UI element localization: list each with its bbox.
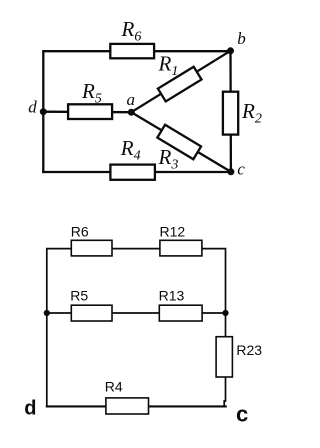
svg-text:R13: R13: [159, 288, 185, 304]
resistor R5 (top circuit): [68, 104, 112, 119]
svg-text:c: c: [237, 159, 245, 178]
wire top d-corner to b: [43, 51, 230, 172]
resistor R13: [159, 305, 202, 321]
svg-text:R2: R2: [241, 99, 262, 127]
svg-text:R6: R6: [121, 17, 142, 45]
resistor R4 (bottom circuit): [106, 398, 149, 414]
resistor R5 (bottom circuit): [71, 305, 112, 321]
resistor R3 (diagonal a-c): [157, 125, 201, 159]
wire bottom d-corner to c: [43, 171, 231, 173]
wire top rail of bottom circuit: [47, 249, 226, 313]
resistor R2 (right side): [223, 92, 238, 135]
wire a to c diagonal: [131, 112, 231, 172]
svg-text:b: b: [237, 29, 246, 48]
wire right rail node to R23: [225, 313, 227, 337]
svg-text:R23: R23: [236, 342, 262, 358]
node d junction dot: [40, 108, 47, 115]
svg-text:R6: R6: [71, 224, 89, 240]
wire a to b diagonal: [131, 51, 230, 112]
svg-text:d: d: [28, 97, 37, 116]
svg-text:R4: R4: [105, 379, 123, 395]
svg-text:a: a: [127, 90, 136, 109]
svg-text:d: d: [24, 398, 36, 420]
resistor R1 (diagonal a-b): [158, 67, 202, 102]
node a junction dot: [128, 109, 135, 116]
junction dot left (node d rail): [44, 310, 50, 316]
svg-text:R5: R5: [81, 79, 102, 107]
svg-text:R1: R1: [158, 52, 179, 80]
resistor R4 (bottom of top circuit): [110, 165, 154, 180]
svg-text:c: c: [236, 401, 248, 426]
wire right b to c: [229, 51, 232, 172]
svg-text:R4: R4: [120, 136, 141, 164]
wire middle row d-node to c-node: [47, 312, 226, 314]
svg-text:R5: R5: [70, 288, 88, 304]
wire d to a: [43, 111, 131, 114]
resistor R12: [160, 240, 202, 256]
wire left rail of bottom circuit: [46, 313, 48, 406]
node c junction dot: [227, 168, 234, 175]
wire bottom rail of bottom circuit: [47, 405, 226, 407]
resistor R23 (right side vertical): [216, 337, 232, 377]
node b junction dot: [227, 47, 234, 54]
resistor R6 (top circuit): [110, 44, 154, 58]
junction dot right (node c rail): [222, 310, 228, 316]
wire R23 to bottom jog: [224, 377, 225, 406]
svg-text:R12: R12: [160, 224, 186, 240]
resistor R6 (bottom circuit): [71, 240, 112, 256]
